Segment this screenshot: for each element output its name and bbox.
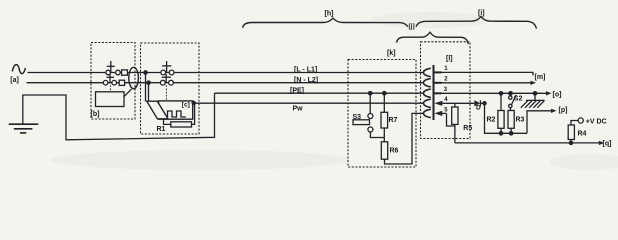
linkage cross L box b: [110, 61, 112, 72]
wire pin5 loop to R5 bottom: [447, 113, 455, 126]
wire PE (third line): [215, 92, 424, 94]
AC source [a]: [10, 65, 25, 85]
ground: [9, 124, 39, 133]
linkage cross L second box: [166, 61, 168, 72]
diode D: [474, 100, 480, 106]
brace [i]: [416, 17, 537, 29]
wire Pw (fourth line): [193, 102, 424, 104]
svg-text:[o]: [o]: [553, 91, 562, 98]
pin 2 line with arrow: [442, 82, 532, 84]
bottom rail to [q]: [455, 142, 601, 144]
wire PE tap to S3: [369, 93, 371, 113]
svg-text:D: D: [476, 105, 481, 112]
wire tap N to element: [148, 83, 150, 102]
resistor R6: [381, 142, 387, 159]
resistor R3: [508, 111, 514, 129]
wire tap L to element: [145, 73, 147, 102]
varistor parallelogram: [147, 101, 168, 119]
svg-text:R1: R1: [157, 126, 166, 133]
pin 1 line to [m]: [442, 72, 534, 75]
svg-text:[p]: [p]: [559, 107, 568, 114]
brace [j]: [397, 32, 469, 44]
svg-text:[k]: [k]: [387, 50, 396, 57]
svg-text:S2: S2: [514, 95, 523, 102]
wire R7 to R6: [383, 128, 385, 142]
svg-text:[PE]: [PE]: [290, 87, 304, 94]
faint scan shading: [50, 12, 618, 170]
bimetal step symbol: [168, 111, 186, 117]
resistor R7: [381, 112, 388, 128]
pin 5 line to R5: [442, 112, 447, 114]
wire line4 to R5 top: [454, 103, 456, 107]
svg-text:[h]: [h]: [325, 11, 334, 18]
box [c] thermal element: [159, 101, 193, 119]
dashed box [l] appliance connector: [421, 42, 471, 139]
svg-text:5: 5: [444, 107, 448, 113]
switch contact N in box b: [103, 80, 116, 85]
svg-text:[l]: [l]: [446, 55, 453, 62]
svg-text:R4: R4: [578, 130, 587, 137]
connector bar: [433, 65, 435, 120]
wire PE tap to R7: [383, 93, 385, 112]
node PE to S2: [509, 92, 512, 95]
pin 3 PE line to [o]: [442, 92, 548, 94]
svg-text:R7: R7: [389, 117, 398, 124]
node N tap: [147, 81, 150, 84]
wire earth loop (source to ground and to PE riser): [23, 93, 215, 140]
svg-text:2: 2: [444, 77, 448, 83]
wire coil to CT ring: [124, 89, 132, 96]
terminal square N in box b: [119, 80, 124, 85]
svg-text:R6: R6: [390, 148, 399, 155]
dashed box [b] RCD: [91, 43, 135, 120]
svg-text:R5: R5: [463, 125, 472, 132]
pin 1: [435, 71, 442, 73]
svg-text:3: 3: [444, 87, 448, 93]
brace [h]: [243, 18, 408, 28]
svg-text:[c]: [c]: [182, 102, 190, 109]
svg-text:[N - L2]: [N - L2]: [294, 77, 318, 84]
connector sockets (left arcs): [423, 68, 430, 76]
CT ring ellipse: [129, 67, 139, 88]
linkage cross N box b: [109, 74, 111, 83]
terminal +V DC: [578, 118, 583, 123]
switch contact L1 in box b: [106, 70, 120, 75]
trip coil in box b: [96, 92, 125, 107]
resistor R1: [164, 119, 171, 124]
svg-text:[b]: [b]: [91, 111, 100, 118]
node L tap: [144, 71, 147, 74]
svg-text:[m]: [m]: [535, 74, 546, 81]
wire rail to [p]: [527, 111, 553, 134]
linkage dashed to trip coil: [109, 85, 111, 92]
pin 4 line to diode: [442, 102, 475, 104]
linkage dashed to thermal element: [165, 85, 167, 100]
terminal square L in box b: [122, 70, 128, 75]
svg-text:4: 4: [444, 97, 448, 103]
wire node down to R2 R3 rail: [485, 103, 528, 133]
svg-text:R2: R2: [487, 117, 496, 124]
svg-text:1: 1: [444, 66, 448, 72]
resistor R5: [452, 107, 458, 124]
chassis ground hatched: [526, 99, 545, 101]
node PE to R2: [499, 92, 502, 95]
svg-text:R3: R3: [516, 116, 525, 123]
switch contact N in second box: [160, 80, 173, 85]
resistor R4: [569, 141, 572, 144]
svg-text:+V DC: +V DC: [586, 118, 607, 125]
svg-text:Pw: Pw: [293, 106, 304, 113]
resistor R2: [498, 111, 504, 129]
node Pw start: [192, 101, 195, 104]
node PE to chassis ground: [533, 92, 536, 95]
pin 5 with arrow into bar: [434, 111, 442, 116]
switch contact L in second box: [161, 70, 174, 75]
switch S2: [509, 96, 512, 99]
linkage cross N second box: [165, 74, 167, 83]
svg-text:[q]: [q]: [603, 141, 612, 148]
node after diode: [483, 102, 486, 105]
dashed box breaker (second): [141, 43, 200, 134]
pin 4 with arrow into bar: [434, 101, 442, 106]
pin 2: [435, 82, 442, 84]
pin 3: [435, 92, 442, 94]
svg-text:[L - L1]: [L - L1]: [294, 67, 317, 74]
wire R6 to connector pin5: [385, 113, 424, 164]
wire L (top line): [28, 72, 424, 74]
wire N (second line): [27, 82, 424, 84]
svg-text:[a]: [a]: [10, 77, 19, 84]
wire R5 to bottom rail: [454, 124, 456, 142]
dashed box installation side (S3 R6 R7): [348, 60, 416, 168]
